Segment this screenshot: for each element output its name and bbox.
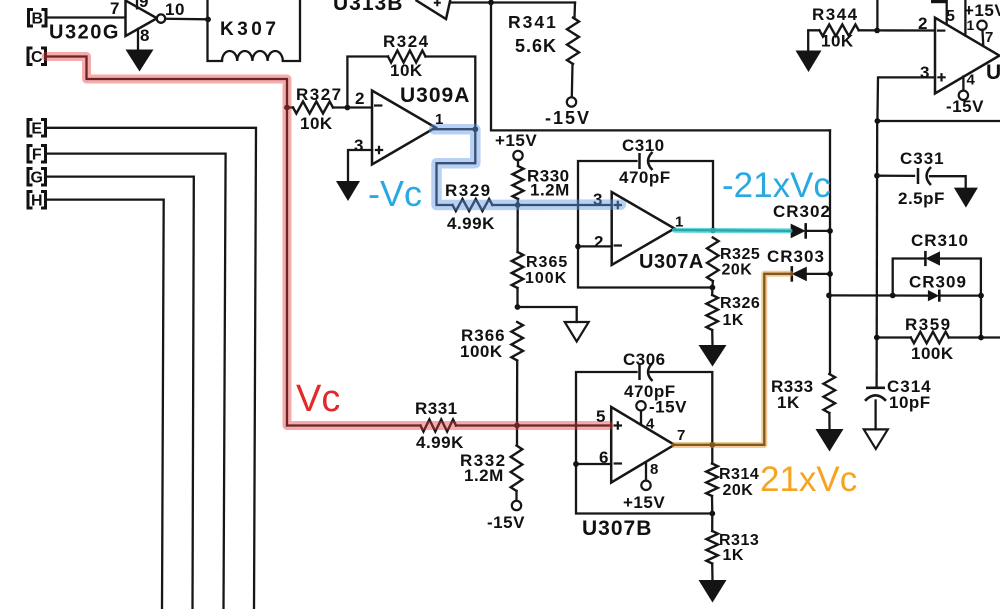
svg-text:3: 3 [354,136,364,155]
connector F [28,146,33,163]
wire from above [876,0,878,30]
svg-text:1.2M: 1.2M [530,181,570,200]
node CR309/CR310 [978,293,984,299]
svg-text:-15V: -15V [487,513,525,532]
Vc highlight [46,57,609,426]
ground [699,580,727,603]
pin 5 wire [946,0,948,24]
svg-text:10: 10 [165,0,185,19]
svg-text:E: E [31,121,42,138]
ground [336,181,360,201]
svg-text:+15V: +15V [623,493,665,512]
node R324/pin2 [345,105,351,111]
svg-text:K307: K307 [220,19,279,40]
svg-text:7: 7 [677,427,686,444]
svg-text:-15V: -15V [649,398,687,417]
capacitor C306 [623,350,676,401]
connector C [28,48,33,65]
svg-text:CR310: CR310 [911,231,969,250]
svg-text:C310: C310 [622,136,665,155]
svg-text:U307A: U307A [639,251,704,273]
node CR302 [827,228,833,234]
node R325/R326 [710,285,716,291]
node pin 6 [573,461,579,467]
wire output -21xVc [675,229,791,232]
svg-text:10pF: 10pF [889,393,931,412]
svg-text:1K: 1K [777,393,800,412]
diode CR303 [767,247,830,282]
svg-text:CR303: CR303 [767,247,825,266]
svg-text:R327: R327 [296,85,343,104]
svg-text:B: B [31,11,43,28]
wire to bottom bus [491,3,830,131]
svg-text:-Vc: -Vc [368,173,422,214]
svg-text:8: 8 [650,461,659,478]
resistor R366 [460,322,523,426]
svg-text:2: 2 [355,89,365,108]
node R314/R313 [709,511,715,517]
wire pin 6 [576,463,611,465]
resistor R326 [706,288,760,346]
wire H [46,200,164,609]
svg-text:1.2M: 1.2M [464,466,504,485]
wire F [46,154,226,609]
feedback box U307A [578,161,713,288]
-21xVc highlight [675,228,791,234]
svg-text:2: 2 [918,14,928,33]
svg-text:+15V: +15V [495,131,537,150]
+15V terminal [495,131,537,160]
connector G [28,169,33,186]
svg-text:-15V: -15V [545,108,591,128]
wire E [46,128,257,609]
svg-text:10K: 10K [390,61,423,80]
node CR309 row [826,293,832,299]
inverter U320G [49,1,165,44]
relay K307 [208,0,301,61]
svg-text:U307B: U307B [582,517,652,540]
svg-text:21xVc: 21xVc [760,460,857,499]
svg-text:F: F [32,147,42,164]
diode CR302 [773,202,831,239]
wire -Vc from U309A output [434,129,612,205]
svg-text:20K: 20K [722,262,753,279]
resistor R329 [445,181,495,233]
svg-text:100K: 100K [911,344,954,363]
wire G [46,177,194,609]
svg-text:G: G [31,170,43,187]
resistor R344 [808,5,877,51]
node Vc / R327 [284,105,290,111]
svg-text:+15V: +15V [964,1,1000,20]
svg-text:100K: 100K [460,342,503,361]
svg-text:8: 8 [140,26,150,45]
op-amp U313B (partial) [333,0,450,19]
node CR310 branch [890,293,896,299]
svg-text:100K: 100K [525,270,567,287]
wire vertical bus B [875,121,878,387]
ground [954,188,978,208]
ground [565,322,589,342]
pin 4 -15V terminal [946,77,984,117]
connector H [28,192,33,209]
svg-text:U: U [986,61,1000,84]
resistor R333 [771,374,835,429]
svg-text:U309A: U309A [400,84,470,107]
pin 8 +15V terminal [623,461,665,512]
capacitor C331 [877,149,966,208]
wire pin 2 [877,29,935,31]
-15V terminal [487,501,525,532]
svg-text:20K: 20K [723,482,754,499]
svg-text:1K: 1K [723,312,744,329]
svg-text:R344: R344 [812,5,859,24]
21xVc highlight [675,274,791,445]
svg-text:7: 7 [110,0,120,18]
svg-text:3: 3 [920,63,930,82]
ground [796,51,822,73]
svg-text:10K: 10K [300,114,333,133]
svg-text:R329: R329 [445,181,492,200]
svg-text:C306: C306 [623,350,666,369]
node R344/pin2 [874,28,880,34]
node R359 right [978,335,984,341]
wire pin 2 [578,245,612,247]
svg-text:470pF: 470pF [619,168,671,187]
node at K307 coil [205,17,211,23]
resistor R332 [460,426,522,502]
resistor R313 [706,514,759,581]
svg-text:4: 4 [967,72,976,89]
pin 8 wire [138,26,150,50]
diode CR310 branch [893,231,981,296]
wire to ground [518,307,577,322]
-Vc highlight [434,129,621,205]
wire U313B output [450,1,575,3]
svg-text:Vc: Vc [296,378,340,420]
node U313B output [488,0,494,5]
wire bus to right edge [877,120,1000,122]
capacitor C314 [865,377,932,429]
op-amp U309A [354,84,470,165]
pin 10 wire [165,0,208,19]
resistor R325 [707,238,760,288]
svg-text:C331: C331 [900,149,945,168]
pin 4 -15V terminal [636,398,687,433]
svg-text:-15V: -15V [946,97,984,116]
-15V terminal [545,97,591,128]
resistor R324 feedback [347,32,475,129]
svg-text:U313B: U313B [333,0,403,15]
svg-text:R314: R314 [719,466,759,483]
svg-text:R324: R324 [383,32,430,51]
feedback box U307B [576,372,712,514]
connector B [29,10,34,27]
node U309A output [472,126,478,132]
node U307A output [710,227,716,233]
wire to R359 [980,296,982,338]
svg-text:R331: R331 [415,399,458,418]
svg-text:H: H [31,193,43,210]
svg-text:R326: R326 [720,295,760,312]
svg-text:4.99K: 4.99K [447,214,495,233]
wire Vc from C [46,57,288,426]
svg-text:9: 9 [139,0,149,11]
svg-text:4: 4 [646,416,655,433]
resistor R330 [513,160,570,205]
resistor R341 [508,3,579,98]
ground [699,345,727,367]
ground [816,429,844,452]
wire output 21xVc [674,274,791,445]
svg-text:1K: 1K [723,547,744,564]
pin 1 wire [964,0,966,36]
wire vertical bus A [829,130,831,374]
wire to pin 2 [347,106,372,108]
connector E [28,120,33,137]
svg-text:R341: R341 [508,12,558,32]
op-amp U344 [918,8,1000,94]
node R359 left [874,335,880,341]
node pin3 bus [875,118,881,124]
node R365/R366/ground branch [515,304,521,310]
wire pin 3 to ground [348,150,372,181]
svg-text:R325: R325 [720,246,760,263]
svg-text:C: C [31,49,43,66]
node R330/R329 [515,202,521,208]
svg-text:5.6K: 5.6K [515,36,557,56]
component stub [931,0,947,3]
svg-text:CR309: CR309 [909,273,967,292]
+15V terminal [964,1,1000,46]
op-amp U307A [593,190,704,273]
svg-text:R365: R365 [526,254,568,271]
wire down to R365 [516,205,518,252]
node U307B output [709,442,715,448]
svg-text:U320G: U320G [49,22,120,44]
svg-text:2.5pF: 2.5pF [898,189,945,208]
resistor R331 [415,399,464,452]
wire pin 3 [877,77,935,121]
node pin 2 [575,244,581,250]
node C331 [874,173,880,179]
resistor R314 [706,445,759,514]
op-amp U307B [582,407,686,540]
resistor R327 [287,85,347,133]
resistor R359 [877,315,1000,363]
ground [126,50,154,72]
wire CR309 row [829,294,981,297]
pin 9 wire [137,0,149,11]
svg-text:7: 7 [985,29,994,46]
wire Vc horizontal [287,424,421,426]
node CR303 [827,271,833,277]
resistor R365 [512,252,569,307]
ground [864,429,888,449]
svg-text:R359: R359 [905,315,952,334]
diode CR309 [909,273,967,302]
svg-text:2: 2 [594,233,604,252]
node R331 / R366 [514,423,520,429]
wire B to U320G [47,16,126,18]
capacitor C310 [619,136,671,187]
svg-text:10K: 10K [821,32,854,51]
svg-text:-21xVc: -21xVc [722,166,831,205]
svg-text:4.99K: 4.99K [416,433,464,452]
